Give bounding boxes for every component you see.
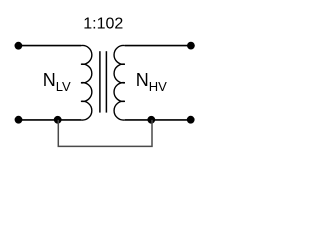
node: bottom-left terminal dot [15,116,23,124]
wire: bottom-left terminal to primary bottom [19,119,82,121]
node: bottom-right terminal dot [187,116,195,124]
wire: secondary bottom to bottom-right terminal [125,119,191,121]
transformer core line 2 [105,51,107,112]
node: top-right terminal dot [187,42,195,50]
wire: secondary top to top-right terminal [125,45,191,47]
transformer core line 1 [99,51,101,112]
node: bottom-right junction dot [147,116,155,124]
inductor primary winding N_LV (4 humps) [81,45,92,120]
node: top-left terminal dot [15,42,23,50]
inductor secondary winding N_HV (4 humps) [114,45,125,120]
wire: top-left terminal to primary top [18,45,81,47]
svg-text:1:102: 1:102 [83,16,123,33]
node: bottom-left junction dot [54,116,62,124]
wire: common bottom link between junctions [58,120,152,146]
